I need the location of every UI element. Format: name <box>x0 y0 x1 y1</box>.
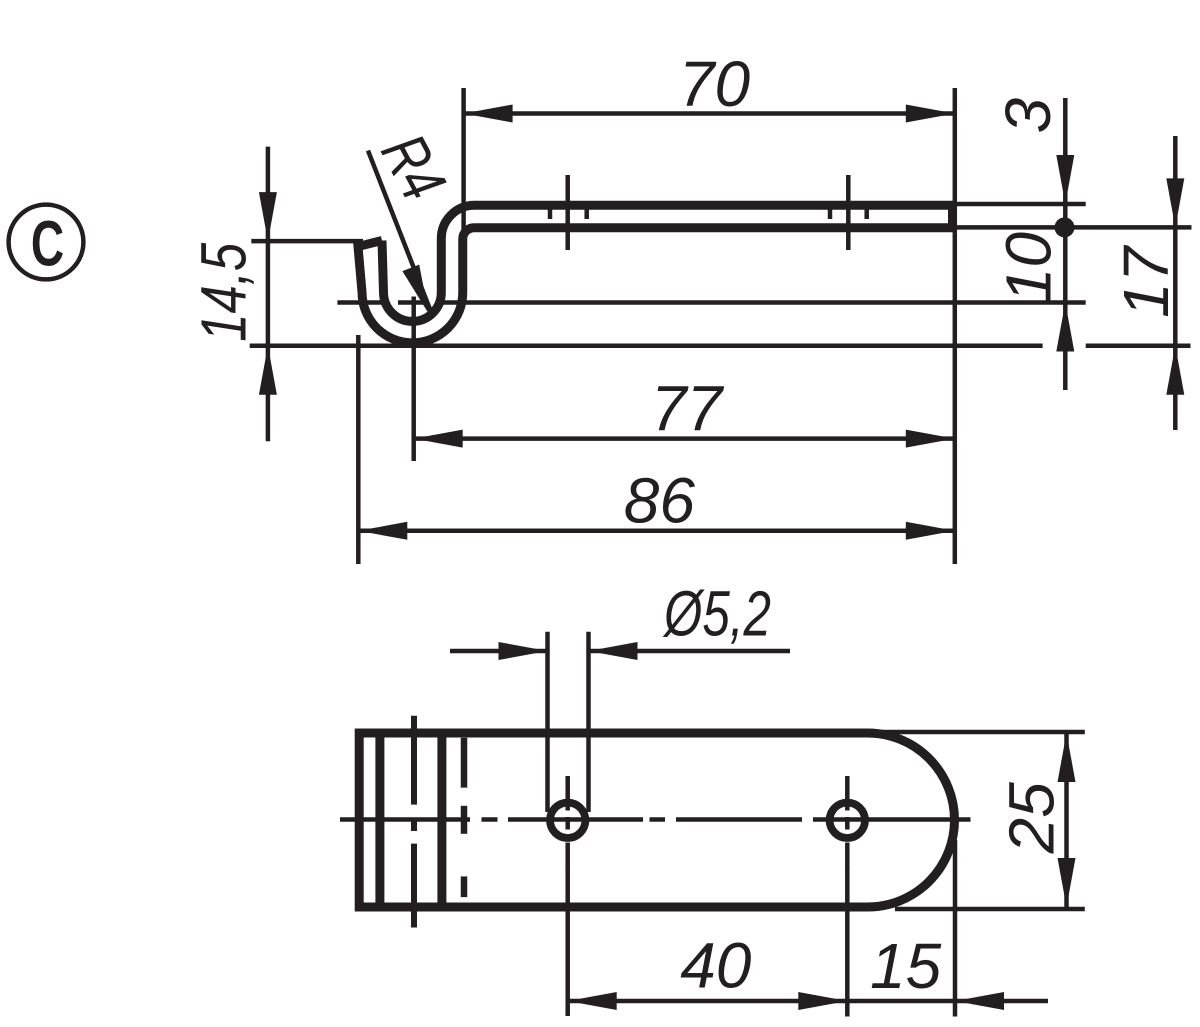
arrow 77 left <box>414 430 463 448</box>
extension line hole1 below <box>565 866 570 1016</box>
plate bend tangent edge x442 <box>437 733 446 907</box>
arrow 40 left <box>568 992 617 1010</box>
hidden edge dashed x464 <box>461 738 468 897</box>
leader line R4 <box>368 151 433 317</box>
extension line 25 bottom <box>895 907 1085 912</box>
extension line x358 for dim 86 left <box>356 335 361 564</box>
arrow diameter left (right-pointing) <box>499 642 548 660</box>
extension line y204 for dim 3 <box>955 202 1086 207</box>
extension line diameter left <box>545 632 550 812</box>
hole 1 circle <box>550 803 585 838</box>
svg-text:40: 40 <box>680 930 752 1002</box>
dimension texts <box>188 48 1183 1002</box>
svg-text:70: 70 <box>679 48 751 120</box>
horizontal centerline of plate <box>340 817 971 822</box>
arrow diameter right (left-pointing) <box>589 642 638 660</box>
dimension line diameter right part <box>589 649 791 654</box>
arrow 17 bottom (up) <box>1166 346 1184 395</box>
svg-text:Ø5,2: Ø5,2 <box>662 578 771 650</box>
svg-text:77: 77 <box>651 372 725 444</box>
hole edge dash right (side view hole 1) <box>584 209 589 219</box>
svg-text:25: 25 <box>996 782 1068 855</box>
arc center cross horizontal <box>398 300 425 305</box>
extension line x463 for dim 70 left <box>461 88 466 241</box>
arrow 17 top (down) <box>1166 178 1184 227</box>
hole edge dash right (side view hole 2) <box>864 209 869 219</box>
plate fold edge line x380 <box>375 733 384 907</box>
arrow 70 right <box>906 105 955 123</box>
arrow 86 right <box>906 522 955 540</box>
hole 2 circle <box>830 803 865 838</box>
hook profile outer surface <box>382 205 955 321</box>
bend centerline x414 <box>411 716 417 928</box>
arrow 14,5 bottom (up) <box>259 346 277 395</box>
extension line x414 for dim 77 left <box>411 297 416 462</box>
dot terminator <box>1055 217 1075 237</box>
arrow 15 right (left-pointing, outside) <box>955 992 1004 1010</box>
hole center tick (side view, hole 1) <box>565 175 570 250</box>
hole 2 vertical centerline <box>845 776 850 869</box>
svg-text:C: C <box>31 208 64 279</box>
arrow 70 left <box>464 105 513 123</box>
dimension line 70 <box>464 111 955 116</box>
hole 1 vertical centerline <box>565 776 570 869</box>
svg-text:86: 86 <box>624 464 696 536</box>
dimension line 14,5 vertical <box>266 147 271 442</box>
dimension line 86 <box>358 529 955 534</box>
hook profile inner surface <box>358 228 955 343</box>
arrow R4 leader <box>402 265 428 314</box>
dimension line 77 <box>414 436 955 441</box>
arrowheads group <box>259 105 1184 540</box>
extension line 25 top <box>868 730 1085 735</box>
dimension line 40 and 15 <box>568 999 1048 1004</box>
arrow 25 top (up) <box>1058 733 1076 782</box>
extension line y302 for dim 10 bottom <box>337 300 388 305</box>
extension line y241 for dim 14,5 top <box>251 239 363 244</box>
arrow 25 bottom (down) <box>1058 858 1076 907</box>
extension line diameter right <box>586 632 591 812</box>
extension line y227 with dot terminator <box>955 225 1192 230</box>
hole edge dash left (side view hole 1) <box>548 209 553 219</box>
bar right end cap <box>948 205 955 227</box>
dimension line 3 and 10 vertical <box>1063 98 1068 390</box>
hole center tick (side view, hole 2) <box>846 175 851 250</box>
extension line y302 right part <box>438 300 1086 305</box>
arrow 3 (down) <box>1056 155 1074 204</box>
extension line y346 left part <box>250 344 1043 349</box>
arrow 10 (up) <box>1056 303 1074 352</box>
view label circle C <box>9 205 84 280</box>
dimension line 17 vertical <box>1173 136 1178 430</box>
svg-text:14,5: 14,5 <box>188 242 260 341</box>
dimension line diameter left part <box>450 649 548 654</box>
arrow 40 right <box>798 992 847 1010</box>
arrow 77 right <box>906 430 955 448</box>
svg-text:17: 17 <box>1110 244 1182 318</box>
extension line hole2 below <box>845 866 850 1017</box>
arrow 86 left <box>358 522 407 540</box>
svg-text:15: 15 <box>870 930 942 1002</box>
hole edge dash left (side view hole 2) <box>828 209 833 219</box>
dimension line 25 <box>1064 733 1069 907</box>
svg-text:10: 10 <box>993 232 1065 304</box>
extension line y346 right part <box>1086 344 1191 349</box>
arrow 14,5 top (down) <box>259 192 277 241</box>
extension line x955 right long <box>953 88 958 564</box>
svg-text:3: 3 <box>992 97 1064 133</box>
extension line right end below <box>953 840 958 1017</box>
plate outline <box>359 733 954 907</box>
